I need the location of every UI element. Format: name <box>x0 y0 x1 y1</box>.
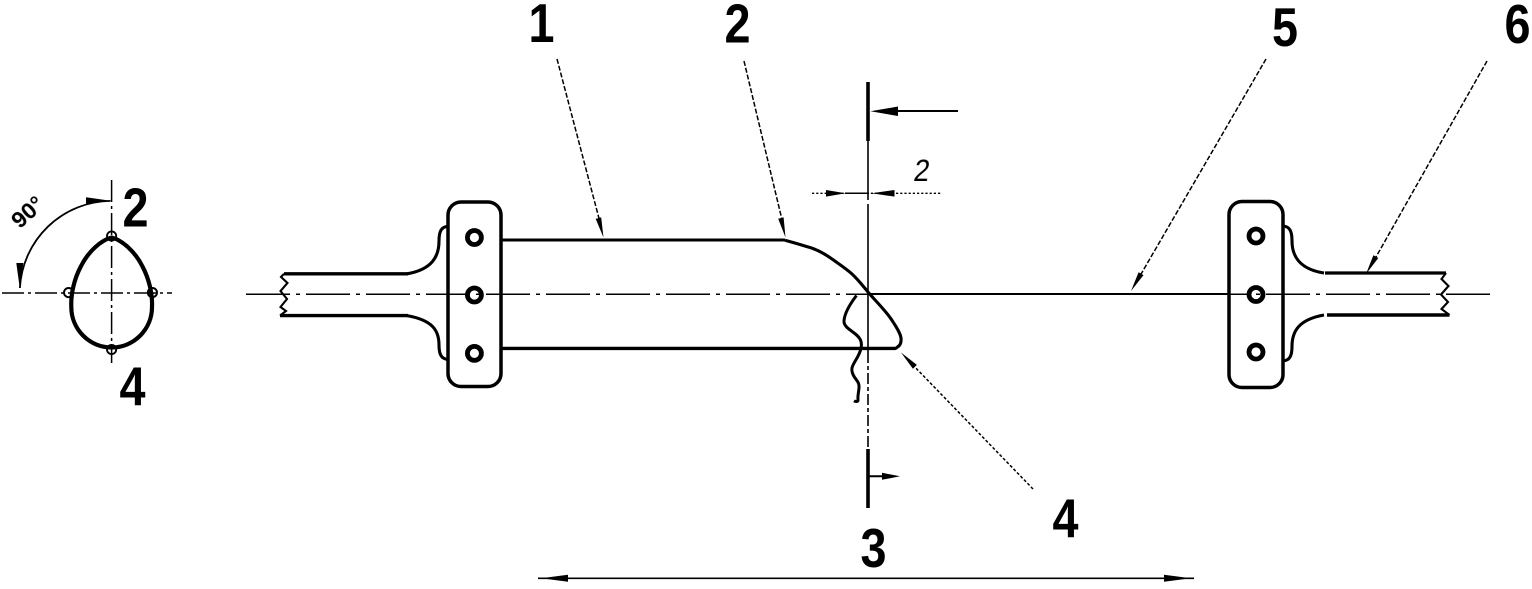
svg-text:2: 2 <box>724 0 750 54</box>
svg-text:2: 2 <box>912 154 932 189</box>
svg-text:6: 6 <box>1504 0 1530 55</box>
svg-text:4: 4 <box>119 355 146 416</box>
svg-text:4: 4 <box>1052 487 1079 548</box>
svg-text:5: 5 <box>1272 0 1298 58</box>
svg-text:1: 1 <box>528 0 554 54</box>
svg-text:2: 2 <box>122 177 148 238</box>
svg-text:3: 3 <box>860 517 886 578</box>
svg-text:90°: 90° <box>6 191 49 234</box>
